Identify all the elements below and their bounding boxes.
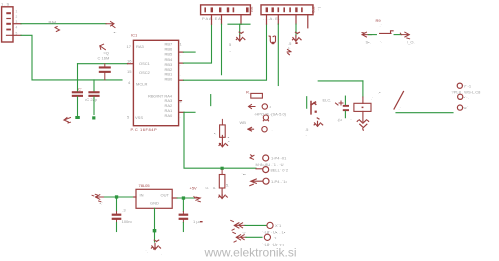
svg-text:1: 1 xyxy=(180,42,183,47)
bottom row 1 pad xyxy=(263,155,269,161)
IC pin RB6 stub + wire xyxy=(179,51,184,53)
svg-text:8ELL´ 0´2: 8ELL´ 0´2 xyxy=(271,167,289,172)
capacitor C4 bottom lead xyxy=(344,111,346,118)
svg-text:·HPO·8L·(SA·5.0): ·HPO·8L·(SA·5.0) xyxy=(254,111,287,116)
svg-text:www.elektronik.si: www.elektronik.si xyxy=(204,246,297,260)
cap C6 bottom lead xyxy=(182,220,184,223)
svg-text:.: . xyxy=(180,114,181,119)
svg-text:VSS: VSS xyxy=(135,115,143,120)
svg-text:OUT: OUT xyxy=(161,192,170,197)
transistor T1 gnd arrow xyxy=(314,118,323,126)
crystal Q1 leads xyxy=(104,64,106,80)
regulator input wire xyxy=(105,196,134,198)
IC pin RA0 stub + wire xyxy=(179,111,184,113)
pad P2 right column xyxy=(458,94,463,99)
wire from X1 pin5 down and right to OSC area xyxy=(21,35,122,80)
S1 switch element xyxy=(380,31,394,34)
gnd arrow left of caps xyxy=(64,118,71,124)
resistor R2 upper (x=222) lead xyxy=(221,119,223,125)
junction dot left xyxy=(115,195,118,198)
resistor R2 body xyxy=(220,125,226,137)
svg-text:100n•: 100n• xyxy=(122,219,133,224)
svg-text:IC1: IC1 xyxy=(131,33,138,38)
svg-text:.•: .• xyxy=(269,104,272,109)
svg-text:1 . S: 1 . S xyxy=(1,2,10,7)
svg-text:5: 5 xyxy=(229,42,232,47)
R4 gnd arrow xyxy=(221,188,223,196)
regulator gnd arrow xyxy=(151,240,160,249)
regulator output stub xyxy=(172,197,177,199)
svg-text:+5V: +5V xyxy=(190,185,198,190)
svg-text:2: 2 xyxy=(16,15,18,19)
svg-text:Y´-1: Y´-1 xyxy=(464,83,472,88)
svg-text:.: . xyxy=(350,116,351,121)
bottom out row 2 pad xyxy=(264,234,270,240)
IC IC1 body xyxy=(133,40,178,125)
svg-text:•.: •. xyxy=(288,45,291,50)
switch S2 diagonal xyxy=(394,92,404,110)
resistor R2 gnd arrow xyxy=(221,135,223,144)
JP1 pin2 stub+wire xyxy=(211,15,213,25)
svg-text:,: , xyxy=(306,132,307,137)
junction on row2 wire xyxy=(221,167,224,170)
svg-text:1: 1 xyxy=(16,10,18,14)
gnd arrow below JP1 xyxy=(239,24,241,36)
svg-text:RB0: RB0 xyxy=(165,77,174,82)
connector X1 body xyxy=(2,7,13,42)
svg-text:·.: ·. xyxy=(380,39,382,44)
regulator input stub xyxy=(134,196,136,198)
junction dot right xyxy=(182,196,185,199)
connector X1 pin bar 3 xyxy=(6,23,11,25)
svg-text:M·8•-8U .´1 . ·U: M·8•-8U .´1 . ·U xyxy=(256,162,284,167)
svg-text:1-P4 -´1•: 1-P4 -´1• xyxy=(271,179,287,184)
bottom out row 2 wire xyxy=(246,236,262,238)
svg-text:.: . xyxy=(351,116,352,121)
bottom row 2 pad + red link xyxy=(256,168,263,170)
svg-text:R.: R. xyxy=(246,90,250,95)
svg-text:4: 4 xyxy=(128,80,131,85)
svg-text:MCLR: MCLR xyxy=(136,81,147,86)
svg-text:•.: •. xyxy=(214,131,217,136)
regulator output wire xyxy=(177,197,195,199)
+5V arrow right xyxy=(194,197,201,202)
JP1 gnd tie bar xyxy=(228,23,250,25)
svg-text:5.: 5. xyxy=(226,183,229,188)
capacitor C2 lead + dot xyxy=(93,97,95,115)
regulator IC2 body xyxy=(136,189,172,208)
svg-text:WB: WB xyxy=(240,120,247,125)
relay K1 body xyxy=(354,103,371,111)
svg-text:ELC.: ELC. xyxy=(323,98,332,103)
junction square bottom xyxy=(153,229,157,232)
pad P1 right column xyxy=(457,83,462,88)
resistor R3 body horizontal xyxy=(251,93,263,98)
bottom out row 1 wire xyxy=(245,224,266,226)
tiny red mark left of bottom rows xyxy=(200,221,203,222)
svg-text:P.C 16F84P: P.C 16F84P xyxy=(131,127,158,132)
svg-text:·•·: ·•· xyxy=(113,30,117,35)
net arrow near crystal xyxy=(100,44,106,50)
svg-text:´.: ´. xyxy=(146,249,148,254)
svg-text:16: 16 xyxy=(127,59,132,64)
S1 left wire xyxy=(368,34,376,36)
crystal Q1 plate top xyxy=(99,66,111,68)
svg-text:RA3: RA3 xyxy=(136,44,145,49)
JP2 pin1 stub+wire handled above; stub red xyxy=(266,15,268,24)
dangling green stub right of IC xyxy=(210,95,212,106)
connector X1 pin bar 2 xyxy=(6,18,11,19)
capacitor C1 end pad xyxy=(75,116,80,119)
cap C6 lead xyxy=(182,200,184,212)
svg-text:u.: u. xyxy=(213,185,216,190)
cap C5 bottom lead xyxy=(116,220,118,223)
svg-text:RA4: RA4 xyxy=(49,19,58,24)
IR receiver arrow 1 xyxy=(249,105,256,109)
connector X1 pin 3 stub xyxy=(13,23,21,25)
svg-text:C´: C´ xyxy=(78,87,82,92)
bottom out row 2 double arrow xyxy=(233,232,246,242)
svg-text:C 16M: C 16M xyxy=(98,56,110,61)
S1 left arrow xyxy=(362,32,372,37)
svg-text:.´: .´ xyxy=(380,23,382,28)
crystal Q1 plate bottom xyxy=(99,71,111,73)
wire net RX from X1 pin3 xyxy=(21,23,106,25)
capacitor C2 top lead xyxy=(93,80,95,91)
connector X1 pin 5 stub xyxy=(7,34,22,36)
svg-text:OSC2: OSC2 xyxy=(139,70,151,75)
svg-text:.: . xyxy=(272,127,273,132)
relay K1 feed wire xyxy=(318,80,363,82)
supply symbol U below JP2 xyxy=(269,36,275,43)
connector X1 pin bar 4 xyxy=(6,29,11,31)
header JP2 body xyxy=(261,5,313,15)
svg-text:15: 15 xyxy=(127,69,132,74)
svg-text:u.: u. xyxy=(206,185,209,190)
small net arrow under RX wire xyxy=(55,27,60,32)
JP1 pin ticks xyxy=(204,7,206,12)
net arrow right end of RX wire xyxy=(106,22,115,28)
svg-text:. . . A . E .: . . . A . E . xyxy=(263,16,280,21)
JP1 pin3 stub+wire dangling xyxy=(221,15,223,25)
svg-text:78L05: 78L05 xyxy=(139,183,151,188)
svg-text:w.´: w.´ xyxy=(464,105,469,110)
svg-text:OSC1: OSC1 xyxy=(139,61,151,66)
svg-text:´·L8´· U•. . L•: ´·L8´· U•. . L• xyxy=(262,230,286,235)
wire from RA0 down to bottom row xyxy=(184,112,256,168)
pad circle node 2 xyxy=(262,127,267,132)
svg-text:.: . xyxy=(161,251,162,256)
cap C5 lead xyxy=(116,199,118,212)
bottom row 3 pad xyxy=(263,178,269,184)
capacitor C2 plates xyxy=(88,91,99,93)
svg-text:·•: ·• xyxy=(274,235,277,240)
svg-text:•´·.: •´·. xyxy=(464,95,469,100)
svg-text:X´1: X´1 xyxy=(275,223,282,228)
svg-text:\_O.: \_O. xyxy=(407,40,415,45)
capacitor C1 lead down xyxy=(77,97,79,118)
supply arrow below JP2 pin6 xyxy=(292,32,301,41)
JP2 pin3 stub + dangling wire xyxy=(277,15,279,24)
JP2 pin6 stub + wire to supply xyxy=(295,15,297,24)
svg-text:RA0: RA0 xyxy=(165,113,174,118)
wire OSC1 from x=78 to IC xyxy=(78,63,128,65)
svg-text:1 µ•: 1 µ• xyxy=(193,219,201,224)
svg-text:.•: .• xyxy=(378,90,381,95)
IC pin RB4 stub + wire to JP1 xyxy=(179,62,184,64)
connector X1 pin bar 1 xyxy=(6,12,11,14)
svg-text:•C 22p: •C 22p xyxy=(85,97,98,102)
svg-text:/..: /.. xyxy=(317,7,323,11)
bottom out row 1 double arrow xyxy=(231,220,245,230)
svg-text:17: 17 xyxy=(127,44,132,49)
pad P3 right column xyxy=(457,105,462,110)
svg-text:.: . xyxy=(180,72,181,77)
capacitor C4 top lead xyxy=(344,96,346,105)
svg-text:1-P4 -01: 1-P4 -01 xyxy=(271,156,287,161)
svg-text:4: 4 xyxy=(16,26,18,30)
bottom row 1 arrow xyxy=(250,155,254,160)
IC pin RA1 stub small xyxy=(179,100,182,102)
svg-text:5: 5 xyxy=(127,115,130,120)
header JP1 body xyxy=(201,5,251,15)
relay K1 double gnd arrow xyxy=(357,120,368,130)
capacitor C4 plates xyxy=(343,105,349,107)
svg-text:JP1: JP1 xyxy=(249,6,254,14)
svg-text:.´: .´ xyxy=(371,96,373,101)
IC pin16 stub xyxy=(128,63,134,65)
pad circle node 1 xyxy=(262,104,267,109)
arrow node 2 xyxy=(248,127,254,131)
svg-text:IN: IN xyxy=(140,192,144,197)
regulator left arrow xyxy=(92,194,104,202)
svg-text:JP2: JP2 xyxy=(311,6,316,14)
red marks below supply xyxy=(287,50,291,55)
cap C6 plates xyxy=(179,214,189,216)
JP2 pin ticks xyxy=(266,7,268,12)
capacitor C1 plates xyxy=(72,91,83,93)
JP2 pin8 stub dangling xyxy=(307,15,309,28)
svg-text:S•.: S•. xyxy=(366,40,371,45)
relay K1 top lead xyxy=(362,97,364,103)
S1 right wire xyxy=(394,34,401,36)
svg-text:.(u: .(u xyxy=(337,117,342,122)
svg-text:5: 5 xyxy=(16,31,18,35)
svg-text:.3: .3 xyxy=(122,208,126,213)
regulator gnd wire xyxy=(154,208,156,242)
svg-text:GND: GND xyxy=(150,201,159,206)
svg-text:•.´: •.´ xyxy=(100,200,104,205)
cap C5 plates xyxy=(112,214,122,216)
LED ring xyxy=(263,115,268,120)
JP1 pin5 stub xyxy=(240,15,242,25)
svg-text:.•: .• xyxy=(227,139,230,144)
svg-text:3: 3 xyxy=(16,20,18,24)
wire cap C1 branch vertical xyxy=(77,64,79,91)
relay K1 bottom lead xyxy=(362,111,364,121)
capacitor C4 plus sign xyxy=(339,101,343,105)
svg-text:´••: ´•• xyxy=(242,172,247,177)
S1 right arrow xyxy=(400,32,409,39)
bottom row 3 arrow+line xyxy=(250,179,263,186)
svg-text:.,: ., xyxy=(229,48,231,53)
IC pin RB0 stub + wire to JP2 pin1 xyxy=(179,79,184,81)
wire from S2 to pads xyxy=(396,112,453,114)
transistor T1 base stub xyxy=(306,97,308,109)
bottom out row 1 pad xyxy=(267,222,273,228)
resistor R4 below junction xyxy=(221,170,223,175)
svg-text:.´: .´ xyxy=(399,106,401,111)
transistor T1 xyxy=(311,102,316,114)
